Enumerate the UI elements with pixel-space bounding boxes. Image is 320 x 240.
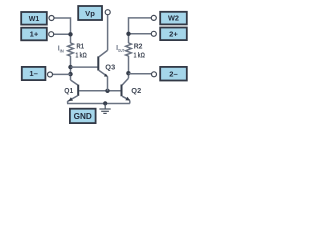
node D (2- tap) <box>126 71 130 75</box>
wire W2 to column <box>129 18 152 43</box>
transistor Q3 <box>97 50 108 76</box>
ground symbol <box>99 103 110 113</box>
connector box 1+ <box>21 28 47 41</box>
transistor Q2 <box>121 78 131 103</box>
node C (Q3 emitter to bases) <box>105 89 109 93</box>
svg-text:Q3: Q3 <box>105 62 115 71</box>
wire 1+ to column <box>54 33 71 35</box>
svg-text:R1: R1 <box>76 42 84 51</box>
svg-text:Vp: Vp <box>85 9 95 18</box>
connector box 1- <box>22 67 46 80</box>
connector box W2 <box>160 12 187 25</box>
wire Q3 emitter down <box>107 76 109 90</box>
svg-text:1 kΩ: 1 kΩ <box>134 51 145 60</box>
wire W1 to column <box>54 18 71 43</box>
svg-text:W2: W2 <box>168 14 179 23</box>
connector box 2- <box>160 67 187 81</box>
terminal circle Vp <box>105 10 110 15</box>
svg-text:2+: 2+ <box>169 29 178 38</box>
connector box W1 <box>21 12 47 25</box>
svg-text:1–: 1– <box>29 69 37 78</box>
svg-text:IIN: IIN <box>58 45 65 53</box>
node junction 2+ <box>126 32 130 36</box>
wire R1 bottom <box>70 56 72 80</box>
svg-text:Q2: Q2 <box>131 86 141 95</box>
wire R2 bottom <box>128 56 130 78</box>
svg-text:Q1: Q1 <box>64 86 73 95</box>
resistor R2 <box>126 43 132 56</box>
svg-text:IOUT: IOUT <box>116 45 124 53</box>
node GND tap <box>103 101 107 105</box>
node junction 1+ <box>68 32 72 36</box>
svg-text:W1: W1 <box>29 14 40 23</box>
wire node D to 2- <box>129 73 152 75</box>
wire 2+ to column <box>129 33 152 35</box>
node B (1- tap) <box>68 72 72 76</box>
terminal circle 1+ <box>49 32 54 37</box>
resistor R1 <box>68 43 74 56</box>
svg-text:2–: 2– <box>169 69 177 78</box>
terminal circle 2+ <box>151 31 156 36</box>
base rail Q1-Q2 <box>79 90 121 92</box>
transistor Q1 <box>68 80 80 104</box>
svg-text:R2: R2 <box>134 42 143 51</box>
connector box GND <box>70 109 96 123</box>
connector box Vp <box>78 6 102 20</box>
svg-text:1+: 1+ <box>30 30 39 39</box>
ground rail <box>67 103 130 105</box>
terminal circle W1 <box>49 16 54 21</box>
connector box 2+ <box>160 28 187 41</box>
terminal circle 1- <box>48 72 53 77</box>
wire 1- to node B <box>53 73 71 75</box>
wire node A to Q3 base <box>71 66 98 68</box>
terminal circle W2 <box>151 15 156 20</box>
svg-text:1 kΩ: 1 kΩ <box>75 51 86 60</box>
node A (Q3 base tap) <box>68 65 72 69</box>
wire Vp to Q3 collector <box>107 15 109 51</box>
terminal circle 2- <box>152 72 157 77</box>
svg-text:GND: GND <box>74 111 92 121</box>
